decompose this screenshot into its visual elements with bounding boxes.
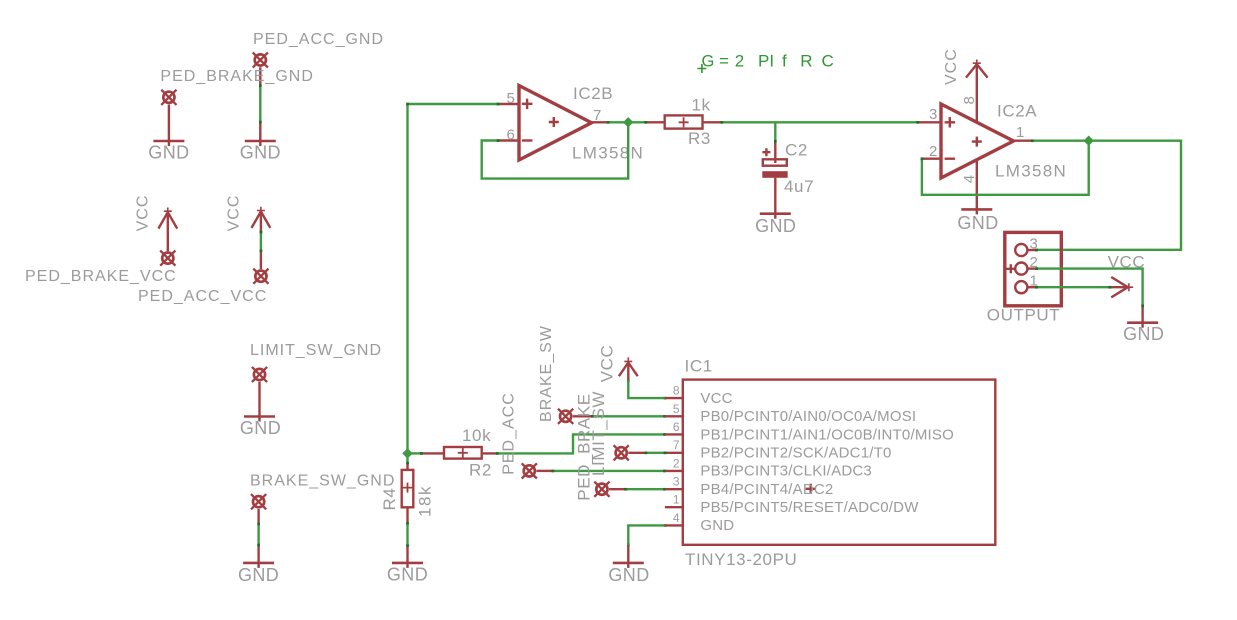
op-amp IC2B pin 5 stub [498, 103, 519, 105]
resistor R3 stub right [703, 121, 722, 123]
svg-text:R4: R4 [380, 488, 399, 511]
pin BRAKE_SW_GND (pad symbol) [251, 494, 266, 509]
wire end junction dots (net/pin overlaps) [257, 84, 1144, 547]
ground GND (OUTPUT pin 2) [1127, 321, 1158, 324]
connector OUTPUT pin 1 stub [1028, 286, 1037, 288]
svg-text:TINY13-20PU: TINY13-20PU [685, 550, 797, 569]
svg-text:R3: R3 [688, 129, 711, 148]
svg-text:GND: GND [755, 216, 796, 236]
supply VCC arrow (PED_ACC_VCC) [252, 207, 271, 232]
supply VCC arrow (IC1 pin 8) [619, 357, 638, 380]
svg-text:LIMIT_SW_GND: LIMIT_SW_GND [250, 342, 382, 359]
wire LIMIT_SW pin to IC1 PB2 [645, 452, 665, 454]
op-amp IC2A plus input mark [945, 117, 956, 127]
resistor R4 stub bottom [406, 507, 408, 523]
wire stub BRAKE_SW pin [573, 415, 592, 417]
svg-text:PED_BRAKE_VCC: PED_BRAKE_VCC [25, 268, 177, 285]
op-amp IC2A pin 8 line to VCC [976, 64, 978, 122]
svg-text:8: 8 [961, 96, 978, 105]
svg-text:VCC: VCC [598, 345, 617, 383]
wire junction to R2 [408, 452, 422, 454]
wire IC2B feedback loop [482, 122, 629, 178]
ground GND (R4) [392, 562, 423, 565]
wire stub LIMIT_SW pin [628, 452, 645, 454]
svg-text:7: 7 [673, 438, 680, 452]
IC1 pin 4 stub (GND) [665, 524, 683, 526]
svg-text:PB1/PCINT1/AIN1/OC0B/INT0/MISO: PB1/PCINT1/AIN1/OC0B/INT0/MISO [700, 426, 954, 443]
svg-text:VCC: VCC [226, 195, 243, 232]
svg-text:PI: PI [758, 52, 774, 71]
IC1 pin 8 stub (VCC) [665, 397, 683, 399]
svg-text:1: 1 [1016, 124, 1025, 141]
ground GND (BRAKE_SW_GND) [243, 562, 274, 565]
pin PED_ACC (pad symbol) [522, 463, 537, 478]
svg-text:f: f [782, 52, 787, 71]
op-amp IC2B plus input mark [522, 99, 533, 109]
svg-text:7: 7 [593, 107, 602, 124]
wire stub to ground BRAKE_SW_GND [257, 545, 259, 568]
wire OUTPUT pin 2 to ground [1037, 269, 1143, 306]
IC1 pin 5 stub (PB0) [665, 415, 683, 417]
svg-text:18k: 18k [416, 485, 435, 517]
supply VCC arrow (PED_BRAKE_VCC) [158, 208, 177, 252]
junction node at R2/R4 [402, 448, 412, 458]
IC1 body TINY13 [683, 380, 996, 545]
svg-text:2: 2 [929, 143, 938, 160]
wire LIMIT_SW_GND to ground [258, 382, 260, 422]
ground GND (IC2A pin 4) [961, 208, 992, 211]
svg-text:VCC: VCC [1108, 253, 1146, 272]
resistor R4 body [402, 470, 414, 507]
connector OUTPUT pin 2 stub [1028, 267, 1037, 269]
svg-text:1: 1 [673, 493, 680, 507]
wire IC1 pin 8 to VCC arrow [628, 380, 665, 398]
svg-text:PED_ACC_GND: PED_ACC_GND [253, 31, 384, 48]
wire stub PED_BRAKE pin [609, 488, 625, 490]
pin PED_BRAKE_GND (pad symbol) [161, 90, 176, 105]
op-amp IC2B pin 6 stub [498, 139, 519, 141]
svg-text:LM358N: LM358N [572, 144, 644, 163]
resistor R2 stub right [482, 452, 498, 454]
wire PED_ACC net to IC2B pin5 [408, 103, 499, 105]
svg-text:10k: 10k [462, 426, 491, 445]
svg-text:VCC: VCC [700, 390, 732, 407]
junction node at IC2B output [623, 117, 633, 127]
resistor R2 body [444, 447, 482, 459]
wire R2 to IC1 PB1 [498, 434, 665, 453]
wire branch to C2 [774, 122, 776, 141]
svg-text:5: 5 [507, 90, 516, 107]
svg-text:GND: GND [700, 517, 734, 534]
pin PED_BRAKE (pad symbol) [594, 482, 609, 497]
svg-text:BRAKE_SW: BRAKE_SW [538, 325, 555, 422]
svg-text:1k: 1k [692, 96, 711, 115]
svg-text:8: 8 [673, 384, 680, 398]
svg-text:4: 4 [961, 175, 978, 184]
op-amp IC2A pin 1 stub [1014, 139, 1033, 141]
wire IC1 pin 4 to ground [628, 525, 665, 545]
connector OUTPUT pin 3 circle [1015, 244, 1027, 256]
wire BRAKE_SW pin to IC1 PB0 [592, 415, 665, 417]
ground GND (LIMIT_SW_GND) [244, 415, 275, 418]
svg-text:2: 2 [735, 52, 744, 71]
svg-text:=: = [719, 52, 729, 71]
wire stub into ground (R4) [406, 546, 408, 568]
pin PED_BRAKE_VCC (pad symbol) [160, 251, 175, 266]
wire stub LIMIT_SW to IC1 [666, 452, 683, 454]
svg-text:6: 6 [673, 420, 680, 434]
connector OUTPUT body [1005, 232, 1062, 305]
svg-text:LIMIT_SW: LIMIT_SW [589, 391, 608, 476]
resistor R3 body [665, 115, 703, 128]
svg-text:4u7: 4u7 [784, 177, 814, 196]
resistor R4 stub top [406, 464, 408, 470]
IC1 pin 1 stub (PB5) [665, 506, 683, 508]
wire stub to pin PED_ACC_VCC [260, 251, 262, 269]
wire PED_ACC_VCC [260, 232, 262, 251]
pin PED_ACC_VCC (pad symbol) [253, 269, 268, 284]
svg-text:IC1: IC1 [685, 357, 713, 376]
svg-text:GND: GND [387, 565, 428, 585]
svg-text:GND: GND [148, 143, 189, 163]
connector OUTPUT pin 3 stub [1028, 249, 1037, 251]
IC1 pin 2 stub (PB3) [665, 470, 683, 472]
op-amp IC2A pin 3 stub [918, 121, 941, 123]
wire stub into ground (OUTPUT pin 2) [1141, 306, 1143, 328]
supply VCC arrow (IC2A pin 8) [966, 60, 988, 78]
junction node at IC2A output [1084, 136, 1094, 146]
svg-text:R: R [800, 52, 812, 71]
op-amp IC2B pin 7 stub [592, 121, 608, 123]
wire IC2A output to junction [1032, 139, 1088, 141]
svg-text:OUTPUT: OUTPUT [987, 306, 1060, 325]
svg-text:GND: GND [240, 418, 281, 438]
svg-text:GND: GND [1123, 324, 1164, 344]
svg-text:PB3/PCINT3/CLKI/ADC3: PB3/PCINT3/CLKI/ADC3 [700, 463, 872, 480]
svg-text:GND: GND [240, 143, 281, 163]
wire R4 to ground [406, 523, 408, 546]
svg-text:6: 6 [507, 127, 516, 144]
pin BRAKE_SW (pad symbol) [558, 409, 573, 424]
IC1 origin cross [806, 484, 816, 494]
svg-text:PED_ACC: PED_ACC [501, 392, 518, 475]
svg-text:5: 5 [673, 402, 680, 416]
wire C2 to ground [774, 178, 776, 219]
pin LIMIT_SW (pad symbol) [614, 445, 629, 460]
svg-text:4: 4 [673, 511, 680, 525]
capacitor C2 minus plate (filled) [762, 171, 787, 178]
wire PED_BRAKE_GND to ground [168, 105, 170, 146]
svg-text:PB2/PCINT2/SCK/ADC1/T0: PB2/PCINT2/SCK/ADC1/T0 [700, 445, 891, 462]
ground GND (PED_ACC_GND) [245, 122, 276, 146]
connector OUTPUT pin 2 circle [1015, 263, 1027, 275]
svg-text:R2: R2 [469, 461, 492, 480]
svg-text:BRAKE_SW_GND: BRAKE_SW_GND [250, 473, 395, 490]
wire PED_ACC_GND to ground [259, 86, 261, 122]
svg-text:PB0/PCINT0/AIN0/OC0A/MOSI: PB0/PCINT0/AIN0/OC0A/MOSI [700, 408, 916, 425]
svg-text:PED_BRAKE_GND: PED_BRAKE_GND [160, 68, 314, 85]
supply VCC arrow right (OUTPUT pin 1) [1110, 277, 1133, 297]
svg-text:PB4/PCINT4/ADC2: PB4/PCINT4/ADC2 [700, 481, 833, 498]
IC1 pin 3 stub (PB4) [665, 488, 683, 490]
op-amp IC2B minus input mark [522, 139, 533, 141]
resistor R2 stub left [421, 452, 444, 454]
capacitor C2 plus plate (outline) [763, 159, 787, 165]
svg-text:GND: GND [238, 565, 279, 585]
op-amp IC2B triangle [519, 86, 592, 161]
note text origin cross (green) [697, 64, 706, 73]
op-amp IC2A triangle [941, 104, 1014, 178]
svg-text:IC2A: IC2A [997, 102, 1037, 121]
connector OUTPUT origin cross [1006, 264, 1015, 273]
ground GND (IC1 pin 4) [613, 562, 644, 565]
connector OUTPUT pin 1 circle [1015, 281, 1027, 293]
wire PED_ACC net vertical trunk [406, 104, 408, 453]
wire IC2A output to OUTPUT pin 3 [1037, 141, 1182, 250]
wire R3 to IC2A pin3 [722, 121, 918, 123]
svg-text:GND: GND [957, 213, 998, 233]
svg-text:LM358N: LM358N [995, 162, 1067, 181]
svg-text:2: 2 [673, 456, 680, 470]
wire stub into ground (IC1 pin 4) [627, 545, 629, 568]
IC1 pin 6 stub (PB1) [665, 433, 683, 435]
pin PED_ACC_GND (pad symbol) [253, 52, 268, 85]
wire PED_ACC pin to IC1 PB3 [552, 470, 665, 472]
op-amp IC2B origin cross [549, 117, 559, 127]
svg-text:3: 3 [673, 475, 680, 489]
capacitor C2 stub top [774, 142, 776, 164]
ground GND (C2) [760, 212, 791, 215]
op-amp IC2A pin 4 line to ground [976, 160, 978, 215]
wire BRAKE_SW_GND [257, 524, 259, 545]
op-amp IC2A minus input mark [945, 157, 956, 159]
svg-text:VCC: VCC [135, 195, 152, 232]
wire IC2A feedback loop [922, 141, 1089, 195]
op-amp IC2A pin 2 stub [922, 157, 941, 159]
svg-text:C2: C2 [785, 141, 808, 160]
resistor R3 stub left [645, 121, 664, 123]
svg-text:C: C [822, 52, 834, 71]
op-amp IC2A origin cross [972, 137, 982, 147]
ground GND (PED_BRAKE_GND) [153, 140, 184, 143]
svg-text:GND: GND [608, 565, 649, 585]
wire junction to R4 [406, 453, 408, 463]
svg-text:PB5/PCINT5/RESET/ADC0/DW: PB5/PCINT5/RESET/ADC0/DW [700, 499, 919, 516]
wire stub PED_ACC pin [537, 470, 553, 472]
svg-text:3: 3 [929, 106, 938, 123]
wire stub BRAKE_SW_GND [257, 509, 259, 524]
pin LIMIT_SW_GND (pad symbol) [252, 367, 267, 382]
wire IC2B output to junction [608, 121, 646, 123]
wire PED_BRAKE pin to IC1 PB4 [625, 488, 665, 490]
capacitor C2 polarity plus [762, 148, 770, 156]
note text G = 2 PI f R C (green) [702, 52, 834, 71]
svg-text:PED_ACC_VCC: PED_ACC_VCC [138, 288, 267, 305]
svg-text:IC2B: IC2B [573, 84, 613, 103]
wire OUTPUT pin 1 to VCC [1037, 286, 1110, 288]
svg-text:VCC: VCC [943, 48, 960, 85]
